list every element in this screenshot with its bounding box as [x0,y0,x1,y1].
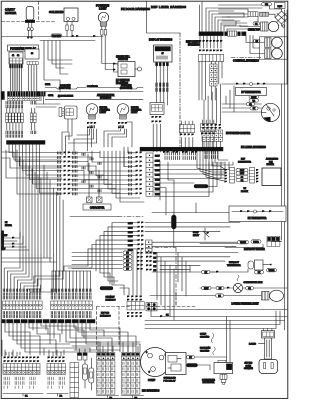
svg-text:HARNESS: HARNESS [100,314,111,317]
mid long wires [154,161,233,247]
mid top pin pairs [163,148,197,153]
upper freezer light 1 [86,104,98,119]
ref connector label [238,159,251,164]
defrost connector grid [267,237,280,247]
aux band wire [45,99,143,101]
svg-text:BK/W: BK/W [128,223,133,225]
svg-text:DEFROST: DEFROST [229,262,240,264]
display harness label [149,39,172,42]
right pin column [136,152,142,195]
svg-text:BU: BU [154,266,157,268]
ice maker label [266,158,279,167]
door bus second wire [40,40,95,42]
upper freezer light 1 label [100,107,111,114]
spare fill switch [113,62,142,77]
svg-text:MOTORIZED DAMPER: MOTORIZED DAMPER [226,132,251,135]
svg-text:GROUND: GROUND [197,186,206,188]
ref light capsules [253,22,260,43]
top wires bundle elbows [200,2,263,32]
svg-text:REF LINER HARNESS: REF LINER HARNESS [151,5,186,9]
svg-text:LIGHT: LIGHT [131,112,138,114]
defrost terminator label [227,262,241,267]
svg-text:WR/OR: WR/OR [269,270,276,272]
display 2 wires [153,124,160,152]
ref liner harness label [151,5,186,9]
ref lights enclosure [260,37,288,59]
motorized damper label [226,132,251,135]
cavity heater label [5,8,16,16]
top right extra wires [222,13,265,54]
svg-text:FZ: FZ [5,222,8,224]
display unit box [154,45,173,62]
control connector columns [210,64,217,86]
overload label [164,377,177,383]
svg-text:COMP: COMP [148,379,156,382]
gn-yl label 2 [48,95,53,97]
svg-text:LIGHT: LIGHT [100,112,107,114]
power cord part label [249,344,265,346]
defrost feed wires [200,242,282,248]
fountain display label box [8,45,39,51]
svg-text:BU: BU [154,253,157,255]
maze crossing wires [70,147,144,202]
svg-text:REF: REF [241,159,246,161]
svg-text:LOWER FREEZER LIGHT: LOWER FREEZER LIGHT [232,304,260,306]
svg-text:BK/W: BK/W [155,165,160,167]
relay capsules [187,356,198,368]
cabinet harness label [106,296,117,302]
svg-text:BK/W: BK/W [155,194,160,196]
left pin column [58,152,78,195]
ground pill vertical [172,215,177,229]
svg-text:SOLENOID: SOLENOID [49,10,63,14]
lower freezer light [262,290,284,301]
svg-text:BLOCK: BLOCK [241,191,248,193]
svg-text:FZ LINER HARNESS: FZ LINER HARNESS [241,145,266,149]
mid staircase [64,250,141,295]
svg-text:ICE: ICE [269,161,273,163]
power cord body [265,338,272,359]
svg-text:SOLENOID: SOLENOID [87,86,98,88]
right edge bundle [282,10,288,330]
liner pin rows [199,40,222,52]
upper freezer light 2 label [131,107,142,114]
control divider dashes [231,57,262,59]
svg-text:AUX FZ MOTOR: AUX FZ MOTOR [97,94,115,97]
svg-text:TERMINATOR: TERMINATOR [227,264,241,267]
svg-text:CONDENSER FAN: CONDENSER FAN [244,281,263,284]
svg-text:BK/W: BK/W [128,227,133,229]
svg-text:MOTOR: MOTOR [5,225,12,227]
svg-text:BK/OR: BK/OR [253,241,259,243]
overload ptc relay [166,353,187,375]
connector hatch bar left [230,168,235,184]
main pcb connector P1 [3,357,43,398]
aux fz motor label [97,94,115,100]
condenser fan capsules [202,286,254,290]
comp relay label [193,232,200,237]
bk capsule left [202,270,211,274]
a2 feed verticals [52,271,91,292]
svg-text:(DOOR FZ&RF): (DOOR FZ&RF) [120,87,133,89]
maze long verticals [88,151,128,193]
svg-text:(FZ&RF ONLY): (FZ&RF ONLY) [59,87,71,89]
svg-text:BU: BU [154,262,157,264]
motorized damper [261,103,279,121]
svg-text:(£) DOOR HINGE: (£) DOOR HINGE [58,96,74,98]
svg-text:BASE PAN: BASE PAN [200,347,211,350]
left staircase to grids [2,255,63,293]
cabinet lower labels A1 [3,312,41,318]
lower freezer light label [232,304,260,306]
cabinet bus bar [2,320,95,323]
right lower pin boxes [146,240,241,253]
right pin col labels [129,152,132,195]
svg-text:PTC RELAY: PTC RELAY [164,379,177,382]
solenoid text on wire [87,86,98,88]
mc harness label [142,389,160,393]
ref door elbows [88,223,240,251]
ff thermistor box [236,88,267,96]
left stack label ticks bottom [6,131,36,137]
svg-text:COMP: COMP [200,334,207,336]
cabinet labels row A1 [3,289,41,299]
svg-text:BK/W: BK/W [128,236,133,238]
fountain display board 2 [25,49,39,65]
svg-text:LINER TOP: LINER TOP [248,30,261,32]
mid bundle bar [140,147,223,151]
svg-text:GROUND: GROUND [52,36,61,38]
light pin marks [87,122,127,129]
svg-text:BK/W: BK/W [155,170,160,172]
svg-text:RELAY: RELAY [193,234,200,237]
svg-text:BK/W: BK/W [155,184,160,186]
svg-text:HARNESS: HARNESS [106,298,117,301]
door fan label [59,84,71,90]
edge connector [1,92,4,100]
svg-text:MAKER: MAKER [267,163,275,166]
condenser fan motor label [202,380,215,385]
power cord block [262,329,275,339]
svg-text:SWITCH: SWITCH [118,58,128,61]
svg-text:SERVICE: SERVICE [244,368,253,370]
svg-text:BK/W: BK/W [155,180,160,182]
svg-text:FF THERMISTOR: FF THERMISTOR [241,91,261,94]
left stack label ticks top [6,102,36,108]
svg-text:COMP: COMP [193,232,199,234]
evap fan motor [275,11,288,24]
svg-text:CAPACITOR: CAPACITOR [90,207,105,210]
svg-text:HEATER: HEATER [5,11,16,15]
door fan label 2 [120,84,133,90]
gn-yl label 1 [45,84,50,86]
svg-text:CONNECTOR: CONNECTOR [238,161,251,163]
tall grid left edge [70,363,79,398]
mc feed wires [145,311,287,363]
svg-text:P2: P2 [60,396,63,398]
aux box wires down [62,119,74,155]
ff thermistor wire [222,82,287,85]
svg-text:R-196D: R-196D [249,344,256,346]
svg-text:BK/W: BK/W [155,189,160,191]
connector bundle pins left [225,169,227,183]
bus drop wires [44,41,72,93]
fuse link 1 [83,355,88,388]
hv pcb harness label [100,313,111,318]
ref light mid [265,37,283,48]
ground capsule mid [194,185,208,189]
svg-text:CABINET: CABINET [106,296,116,299]
divider right lower [146,248,176,306]
spare fill switch label [116,56,131,62]
hv pcb connector P3 [97,353,119,400]
divider hv pcb dashes [97,292,197,351]
ground capsule cabinet [100,287,113,291]
aux motor harness wire [45,88,143,92]
display wire labels [156,83,168,91]
ground label [51,34,62,38]
liner drop wires [200,36,221,48]
ref light low [265,48,283,59]
FZ door harness dashed boundary [2,2,57,22]
svg-text:WR/BK: WR/BK [251,97,256,99]
svg-text:FZ: FZ [244,188,247,190]
left edge pins [2,232,29,251]
svg-text:DISPLAY HARNESS: DISPLAY HARNESS [149,39,172,42]
svg-text:CONTROL HARNESS: CONTROL HARNESS [233,59,259,63]
left maze elbows [2,150,62,194]
connector hatch bar right [250,168,255,184]
fz liner feed wires [222,86,262,112]
left bundle fan [9,144,62,193]
door ground bus wire [2,35,103,37]
svg-text:AUTOMATIC: AUTOMATIC [266,158,279,161]
svg-text:BK/W: BK/W [128,245,133,247]
svg-text:MC HARNESS: MC HARNESS [142,389,160,393]
control column wires [199,62,222,101]
section divider horizontal [70,216,145,218]
left stack right wires [36,96,60,107]
defrost heater label [244,248,265,251]
fountain display connector strip [8,92,46,101]
cabinet connector A2 [51,301,93,310]
top right box b [275,3,286,9]
ref light top [261,21,279,31]
defrost capsules top [238,240,262,244]
svg-text:FZ DOOR HARNESS: FZ DOOR HARNESS [121,7,150,11]
svg-text:GN/YL: GN/YL [48,95,53,97]
condenser fan label mid [244,281,263,284]
main pcb connector P2 [47,357,68,398]
compressor [141,348,170,377]
door hinge label [58,96,74,98]
cabinet labels row A2 [51,289,91,299]
bottom maze [2,323,140,356]
display wires down [10,65,36,92]
display unit pins [156,63,169,106]
svg-text:OVERLOAD: OVERLOAD [164,377,177,380]
cabinet grid A3 [127,296,144,318]
mid label tick columns [165,151,218,160]
defrost wires right [152,253,238,321]
relay wires [195,357,227,370]
base pan ground label [200,347,215,356]
defrost terminator [248,260,272,270]
svg-text:BK/W: BK/W [128,232,133,234]
wire bulb drops [102,37,117,70]
mid right pin boxes [146,153,160,196]
small relay boxes [78,349,88,360]
connector capsules [236,169,248,182]
wire to terminator [210,269,248,273]
mid pin group A [180,121,195,136]
cabinet lower labels A2 [51,312,91,318]
light switch box [59,106,77,119]
left stack wires top [7,108,35,113]
bar feed wires [181,137,213,148]
lower light wire [150,294,262,298]
condenser fan motor [214,360,233,384]
connector bundle pins right [256,169,258,183]
left stack bar [7,141,46,145]
brace squiggle [237,275,239,281]
fountain light bulb [98,12,108,36]
ref lights harness label [186,41,200,47]
cavity heater [25,7,35,39]
svg-text:HARNESS: HARNESS [188,43,200,46]
svg-text:FZ DOOR HARNESS: FZ DOOR HARNESS [2,230,5,250]
fz thermistor box [229,206,286,222]
liner bundle bar [199,32,246,36]
door switch capsules [248,12,285,28]
svg-text:BK/W: BK/W [204,288,209,290]
right lower pin column [146,252,157,273]
display unit box 2 [150,103,164,123]
fz liner harness label [241,145,266,149]
liner top label [248,30,261,32]
water solenoid [64,8,78,37]
svg-text:FZ THERMISTOR: FZ THERMISTOR [248,218,267,220]
comp relay symbol [203,228,209,240]
svg-text:FAN MOTOR: FAN MOTOR [203,381,215,384]
svg-text:BK/W: BK/W [155,175,160,177]
left stack connector row [6,113,36,123]
svg-text:BK/W: BK/W [240,173,245,175]
left rotated label [2,230,5,250]
lower mid horiz wires [72,251,143,271]
label FZ DOOR HARNESS [121,7,150,11]
left stack wires mid [7,123,35,130]
ice maker box [262,168,281,186]
top right capsule a [262,3,272,7]
solenoid label [49,10,63,14]
fz liner connector stack [202,124,223,141]
icemaker feed fan [197,150,228,181]
hv feed wires [70,342,140,352]
svg-text:115 VAC: 115 VAC [245,362,253,365]
comp label [148,379,156,382]
svg-text:LIGHT: LIGHT [99,7,107,11]
svg-text:BU: BU [154,257,157,259]
svg-text:DEFROST HEATER: DEFROST HEATER [244,248,265,251]
svg-text:BK/W: BK/W [155,156,160,158]
svg-text:BK/W: BK/W [128,241,133,243]
svg-text:WR/BK: WR/BK [240,242,246,244]
damper capsules [247,95,259,110]
light wires [68,122,132,151]
upper freezer light 2 [117,104,129,119]
bulb label capsules [90,126,124,128]
fz liner stack wires [204,84,220,147]
svg-text:HV PCB: HV PCB [101,313,110,315]
liner bundle hatch [228,31,237,36]
fz thermistor feed [152,203,229,213]
fz block label [241,188,248,193]
defrost lower capsules [255,269,277,275]
maze row labels [82,153,101,192]
svg-text:HARNESS: HARNESS [100,97,112,100]
ref door pin column [128,222,143,252]
svg-text:GN/YL: GN/YL [45,84,50,86]
capacitor [83,163,111,210]
fz motor label [5,222,12,227]
divider above machine [150,309,287,311]
LF switch harness label [116,79,130,85]
svg-text:P1: P1 [25,396,28,398]
fuse link 2 [89,358,94,390]
top right wires [219,5,284,26]
comp ground label [200,333,214,343]
svg-text:60 HZ: 60 HZ [246,365,252,367]
fountain light label [96,4,109,11]
condenser fan wire [200,287,287,289]
left bundle verticals [20,157,63,279]
liner connector boxes [199,55,224,62]
section divider ref liner [147,2,181,151]
svg-text:GROUND: GROUND [103,288,112,290]
svg-text:GROUND: GROUND [200,350,210,352]
svg-text:GROUND: GROUND [188,365,196,367]
cabinet connector A1 [3,301,43,310]
svg-text:LINE: LINE [277,6,282,8]
mc grid connector [146,303,157,311]
fountain display board 1 [9,52,23,68]
service plug [259,360,278,374]
fz thermistor symbol [232,210,283,213]
condenser fan circleX [233,283,242,292]
svg-text:GROUND: GROUND [200,336,210,338]
bottom block wires [5,350,61,356]
service label [244,362,253,371]
control harness label [233,59,259,63]
mid pin group B [201,120,216,135]
hv pcb connector P4 [122,353,144,400]
